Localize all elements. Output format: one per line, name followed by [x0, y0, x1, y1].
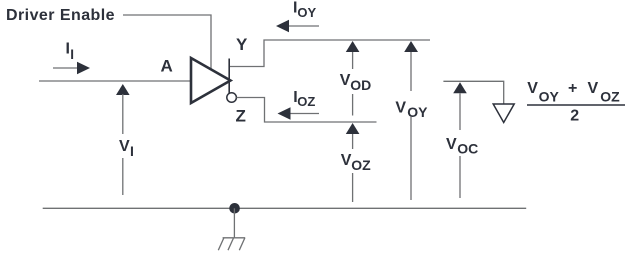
driver output bar: [228, 59, 230, 94]
svg-text:V: V: [527, 80, 538, 97]
svg-text:Y: Y: [236, 35, 248, 54]
svg-text:V: V: [395, 100, 406, 117]
wire ground stub: [233, 208, 235, 238]
svg-text:OZ: OZ: [600, 88, 620, 104]
svg-text:OZ: OZ: [351, 157, 371, 173]
formula (VOY+VOZ)/2 numerator: [527, 80, 620, 104]
current arrow II (right): [53, 62, 90, 74]
svg-text:OD: OD: [350, 77, 371, 93]
svg-text:I: I: [70, 47, 74, 62]
voltage arrow VOD: [346, 41, 360, 116]
voltage arrow VOY: [404, 41, 418, 200]
open arrowhead reference symbol: [493, 104, 514, 123]
voltage label VI: [119, 138, 134, 159]
wire output Y: [230, 40, 430, 67]
svg-text:OY: OY: [297, 5, 316, 20]
svg-text:OZ: OZ: [297, 94, 315, 109]
svg-text:+: +: [568, 80, 577, 97]
wire common-mode tap: [443, 81, 503, 103]
svg-text:OY: OY: [539, 88, 560, 104]
current arrow IOZ (left): [278, 107, 320, 119]
formula fraction bar: [527, 104, 625, 106]
junction dot: [229, 203, 240, 214]
svg-text:V: V: [341, 152, 352, 169]
wire driver-enable from label to driver hypotenuse: [123, 15, 211, 69]
svg-text:V: V: [446, 136, 457, 153]
svg-text:Driver Enable: Driver Enable: [6, 7, 115, 24]
svg-text:OY: OY: [407, 104, 428, 120]
current label II: [66, 41, 74, 63]
voltage label VOZ: [341, 152, 371, 173]
inversion bubble Z output: [227, 93, 237, 103]
svg-text:A: A: [161, 57, 173, 76]
svg-text:V: V: [588, 80, 599, 97]
voltage arrow VOC: [453, 82, 467, 198]
current arrow IOY (left): [276, 20, 319, 32]
voltage label VOY: [395, 100, 428, 121]
svg-text:I: I: [130, 143, 134, 159]
voltage arrow VOZ: [346, 123, 360, 202]
svg-text:Z: Z: [236, 106, 246, 125]
driver buffer U1: [191, 58, 231, 103]
svg-text:V: V: [119, 138, 130, 155]
svg-text:V: V: [340, 72, 351, 89]
current label IOZ: [293, 89, 315, 109]
ground (chassis): [218, 238, 245, 250]
voltage label VOC: [446, 136, 478, 157]
current label IOY: [293, 0, 317, 20]
voltage label VOD: [340, 72, 372, 93]
wire input A: [39, 80, 190, 82]
svg-text:2: 2: [570, 108, 579, 125]
voltage arrow VI: [116, 84, 130, 195]
wire ground rail: [43, 207, 527, 209]
wire output Z: [236, 98, 376, 123]
svg-text:OC: OC: [457, 141, 478, 157]
